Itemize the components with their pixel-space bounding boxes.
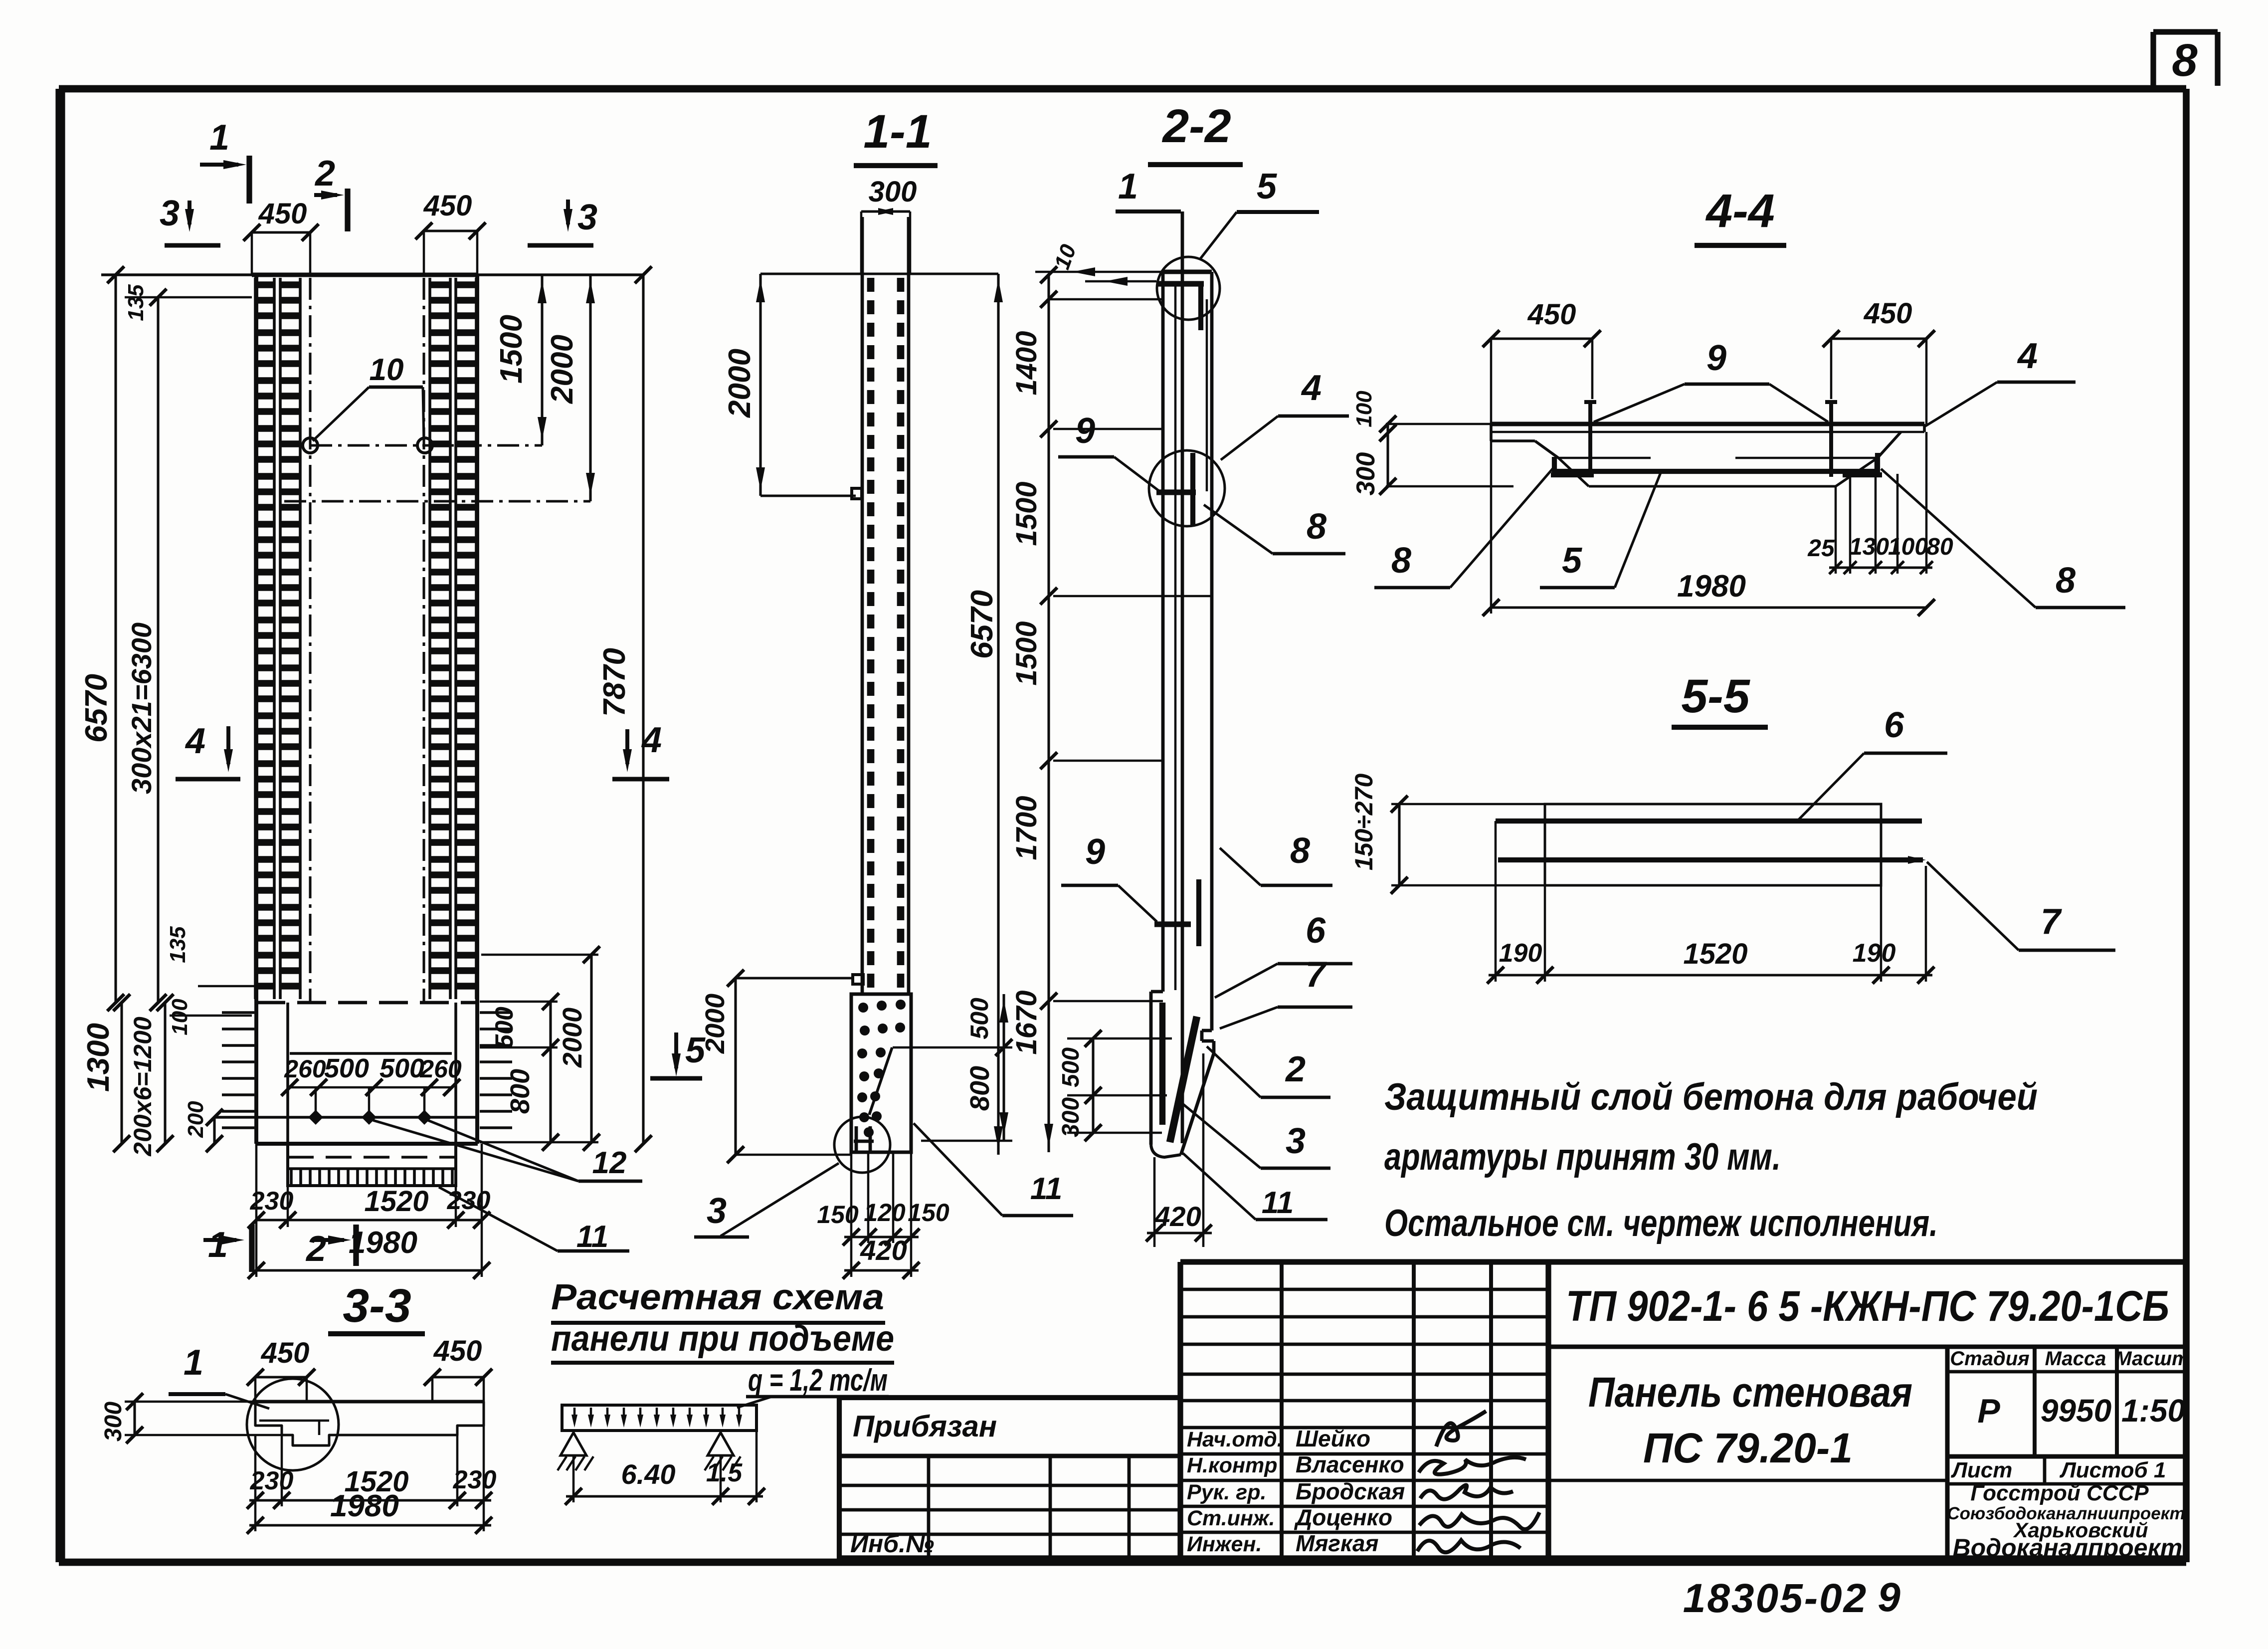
svg-text:7870: 7870 — [597, 648, 632, 717]
svg-text:9: 9 — [1878, 1575, 1900, 1620]
svg-text:ПС 79.20-1: ПС 79.20-1 — [1643, 1425, 1853, 1471]
svg-text:8: 8 — [1307, 507, 1326, 547]
svg-text:3: 3 — [160, 194, 180, 233]
svg-text:300: 300 — [100, 1402, 127, 1442]
svg-text:Масса: Масса — [2045, 1348, 2106, 1370]
svg-text:Доценко: Доценко — [1294, 1504, 1392, 1530]
svg-text:4-4: 4-4 — [1705, 185, 1774, 237]
svg-text:Инб.№: Инб.№ — [850, 1530, 934, 1558]
svg-text:1300: 1300 — [81, 1023, 116, 1092]
svg-text:Панель стеновая: Панель стеновая — [1588, 1369, 1912, 1416]
svg-text:8: 8 — [2172, 35, 2198, 86]
svg-text:200x6=1200: 200x6=1200 — [129, 1017, 157, 1157]
svg-text:1:50: 1:50 — [2121, 1393, 2185, 1429]
svg-text:1400: 1400 — [1010, 331, 1043, 395]
svg-text:4: 4 — [2017, 336, 2038, 376]
svg-text:Власенко: Власенко — [1296, 1451, 1404, 1477]
svg-text:12: 12 — [592, 1146, 627, 1180]
svg-text:8: 8 — [2056, 561, 2076, 601]
svg-text:300: 300 — [869, 176, 917, 208]
svg-text:Листоб 1: Листоб 1 — [2060, 1458, 2166, 1482]
svg-text:1980: 1980 — [349, 1226, 417, 1260]
svg-text:q = 1,2 тс/м: q = 1,2 тс/м — [748, 1363, 888, 1398]
svg-text:6: 6 — [1306, 911, 1326, 951]
svg-text:9: 9 — [1085, 832, 1105, 872]
svg-text:1.5: 1.5 — [706, 1458, 743, 1487]
svg-text:800: 800 — [965, 1066, 995, 1111]
svg-text:8: 8 — [1391, 541, 1411, 581]
svg-text:ТП 902-1- 6 5 -КЖН-ПС 79.20-1С: ТП 902-1- 6 5 -КЖН-ПС 79.20-1СБ — [1566, 1282, 2169, 1330]
svg-text:8: 8 — [1290, 831, 1310, 871]
svg-text:Масшт: Масшт — [2115, 1348, 2189, 1370]
svg-text:150÷270: 150÷270 — [1350, 774, 1378, 870]
svg-text:6: 6 — [1884, 705, 1904, 745]
svg-text:2000: 2000 — [545, 335, 579, 404]
svg-text:3: 3 — [577, 198, 597, 237]
svg-text:Н.контр: Н.контр — [1187, 1453, 1278, 1477]
svg-text:6.40: 6.40 — [621, 1458, 676, 1490]
svg-text:230: 230 — [250, 1187, 294, 1216]
svg-text:190: 190 — [1499, 939, 1542, 968]
svg-text:1500: 1500 — [1010, 621, 1043, 685]
svg-text:6570: 6570 — [79, 674, 114, 743]
svg-text:1670: 1670 — [1010, 990, 1043, 1054]
svg-text:Нач.отд.: Нач.отд. — [1187, 1428, 1283, 1451]
svg-text:1-1: 1-1 — [863, 105, 932, 158]
svg-text:1500: 1500 — [1010, 481, 1043, 546]
svg-text:11: 11 — [1030, 1172, 1062, 1206]
svg-text:18305-02: 18305-02 — [1683, 1576, 1868, 1621]
svg-text:1: 1 — [1118, 167, 1138, 206]
svg-text:135: 135 — [124, 284, 148, 321]
svg-text:2000: 2000 — [700, 994, 730, 1054]
svg-text:500: 500 — [379, 1053, 424, 1083]
svg-text:1: 1 — [184, 1343, 203, 1383]
svg-text:11: 11 — [1262, 1186, 1294, 1220]
svg-text:300: 300 — [1351, 452, 1380, 496]
svg-text:130: 130 — [1849, 534, 1889, 560]
svg-text:100: 100 — [1888, 534, 1928, 560]
svg-text:450: 450 — [433, 1335, 482, 1367]
svg-text:4: 4 — [185, 721, 205, 761]
svg-text:3-3: 3-3 — [343, 1279, 411, 1332]
svg-text:1520: 1520 — [364, 1185, 428, 1218]
svg-text:500: 500 — [1058, 1047, 1084, 1087]
svg-text:135: 135 — [166, 926, 190, 963]
svg-text:Лист: Лист — [1951, 1458, 2013, 1482]
svg-text:5: 5 — [1562, 541, 1582, 581]
svg-text:7: 7 — [1306, 955, 1327, 995]
svg-text:Мягкая: Мягкая — [1296, 1530, 1379, 1556]
svg-text:11: 11 — [576, 1220, 608, 1254]
svg-text:230: 230 — [250, 1466, 294, 1495]
svg-text:450: 450 — [1527, 298, 1576, 331]
svg-text:500: 500 — [490, 1007, 518, 1048]
svg-text:800: 800 — [505, 1069, 535, 1114]
svg-text:Бродская: Бродская — [1296, 1478, 1405, 1504]
svg-text:300: 300 — [1058, 1097, 1084, 1137]
svg-text:2000: 2000 — [723, 349, 757, 418]
svg-text:панели при подъеме: панели при подъеме — [551, 1319, 894, 1359]
svg-text:3: 3 — [707, 1191, 727, 1231]
svg-text:420: 420 — [1154, 1201, 1201, 1232]
svg-text:2: 2 — [305, 1229, 326, 1269]
svg-text:500: 500 — [965, 998, 993, 1039]
svg-text:500: 500 — [324, 1053, 369, 1083]
svg-text:3: 3 — [1286, 1121, 1306, 1161]
svg-text:80: 80 — [1926, 534, 1953, 560]
svg-text:Ст.инж.: Ст.инж. — [1187, 1506, 1275, 1530]
svg-text:1: 1 — [209, 118, 229, 158]
svg-text:1500: 1500 — [494, 315, 529, 384]
svg-text:260: 260 — [284, 1055, 326, 1083]
svg-text:100: 100 — [168, 999, 192, 1035]
svg-text:Расчетная схема: Расчетная схема — [551, 1277, 884, 1317]
svg-text:1700: 1700 — [1010, 796, 1043, 860]
svg-text:260: 260 — [419, 1055, 462, 1083]
svg-text:200: 200 — [184, 1101, 208, 1138]
svg-text:5-5: 5-5 — [1681, 670, 1750, 723]
svg-text:1980: 1980 — [330, 1489, 399, 1523]
svg-text:2000: 2000 — [558, 1008, 587, 1068]
svg-text:25: 25 — [1807, 535, 1835, 562]
svg-text:450: 450 — [261, 1337, 310, 1369]
svg-text:Стадия: Стадия — [1950, 1348, 2029, 1370]
svg-text:450: 450 — [258, 198, 307, 230]
svg-text:450: 450 — [423, 190, 472, 222]
svg-text:Инжен.: Инжен. — [1187, 1532, 1262, 1556]
svg-text:9: 9 — [1706, 338, 1726, 378]
svg-text:Водоканалпроект: Водоканалпроект — [1953, 1534, 2183, 1562]
svg-text:Остальное см. чертеж исполн: Остальное см. чертеж исполнения. — [1384, 1202, 1938, 1244]
svg-text:450: 450 — [1864, 297, 1912, 330]
svg-text:10: 10 — [370, 353, 404, 387]
svg-text:Госстрой СССР: Госстрой СССР — [1970, 1481, 2149, 1505]
svg-text:100: 100 — [1352, 391, 1376, 427]
svg-text:150: 150 — [817, 1201, 859, 1229]
svg-text:Шейко: Шейко — [1296, 1426, 1370, 1451]
svg-text:2-2: 2-2 — [1161, 100, 1231, 153]
svg-text:1980: 1980 — [1677, 569, 1746, 604]
svg-text:190: 190 — [1853, 939, 1896, 968]
svg-text:420: 420 — [860, 1235, 907, 1266]
svg-text:230: 230 — [453, 1465, 497, 1494]
svg-text:7: 7 — [2041, 902, 2062, 942]
svg-text:1: 1 — [208, 1225, 228, 1265]
svg-text:2: 2 — [1285, 1049, 1306, 1089]
svg-text:арматуры принят 30 мм.: арматуры принят 30 мм. — [1384, 1136, 1781, 1178]
svg-text:300x21=6300: 300x21=6300 — [126, 622, 157, 794]
svg-text:1520: 1520 — [1683, 938, 1747, 970]
svg-text:120: 120 — [864, 1199, 906, 1227]
svg-text:2: 2 — [314, 154, 335, 194]
svg-text:4: 4 — [1301, 368, 1322, 408]
svg-text:Рук. гр.: Рук. гр. — [1187, 1480, 1266, 1504]
svg-text:Защитный слой бетона для р: Защитный слой бетона для рабочей — [1384, 1076, 2038, 1118]
svg-text:9950: 9950 — [2041, 1393, 2111, 1429]
svg-text:Р: Р — [1977, 1392, 2000, 1430]
svg-text:9: 9 — [1075, 411, 1095, 451]
svg-text:Прибязан: Прибязан — [853, 1410, 997, 1443]
svg-text:5: 5 — [1257, 167, 1277, 206]
svg-text:6570: 6570 — [965, 590, 999, 659]
svg-text:150: 150 — [908, 1199, 949, 1227]
